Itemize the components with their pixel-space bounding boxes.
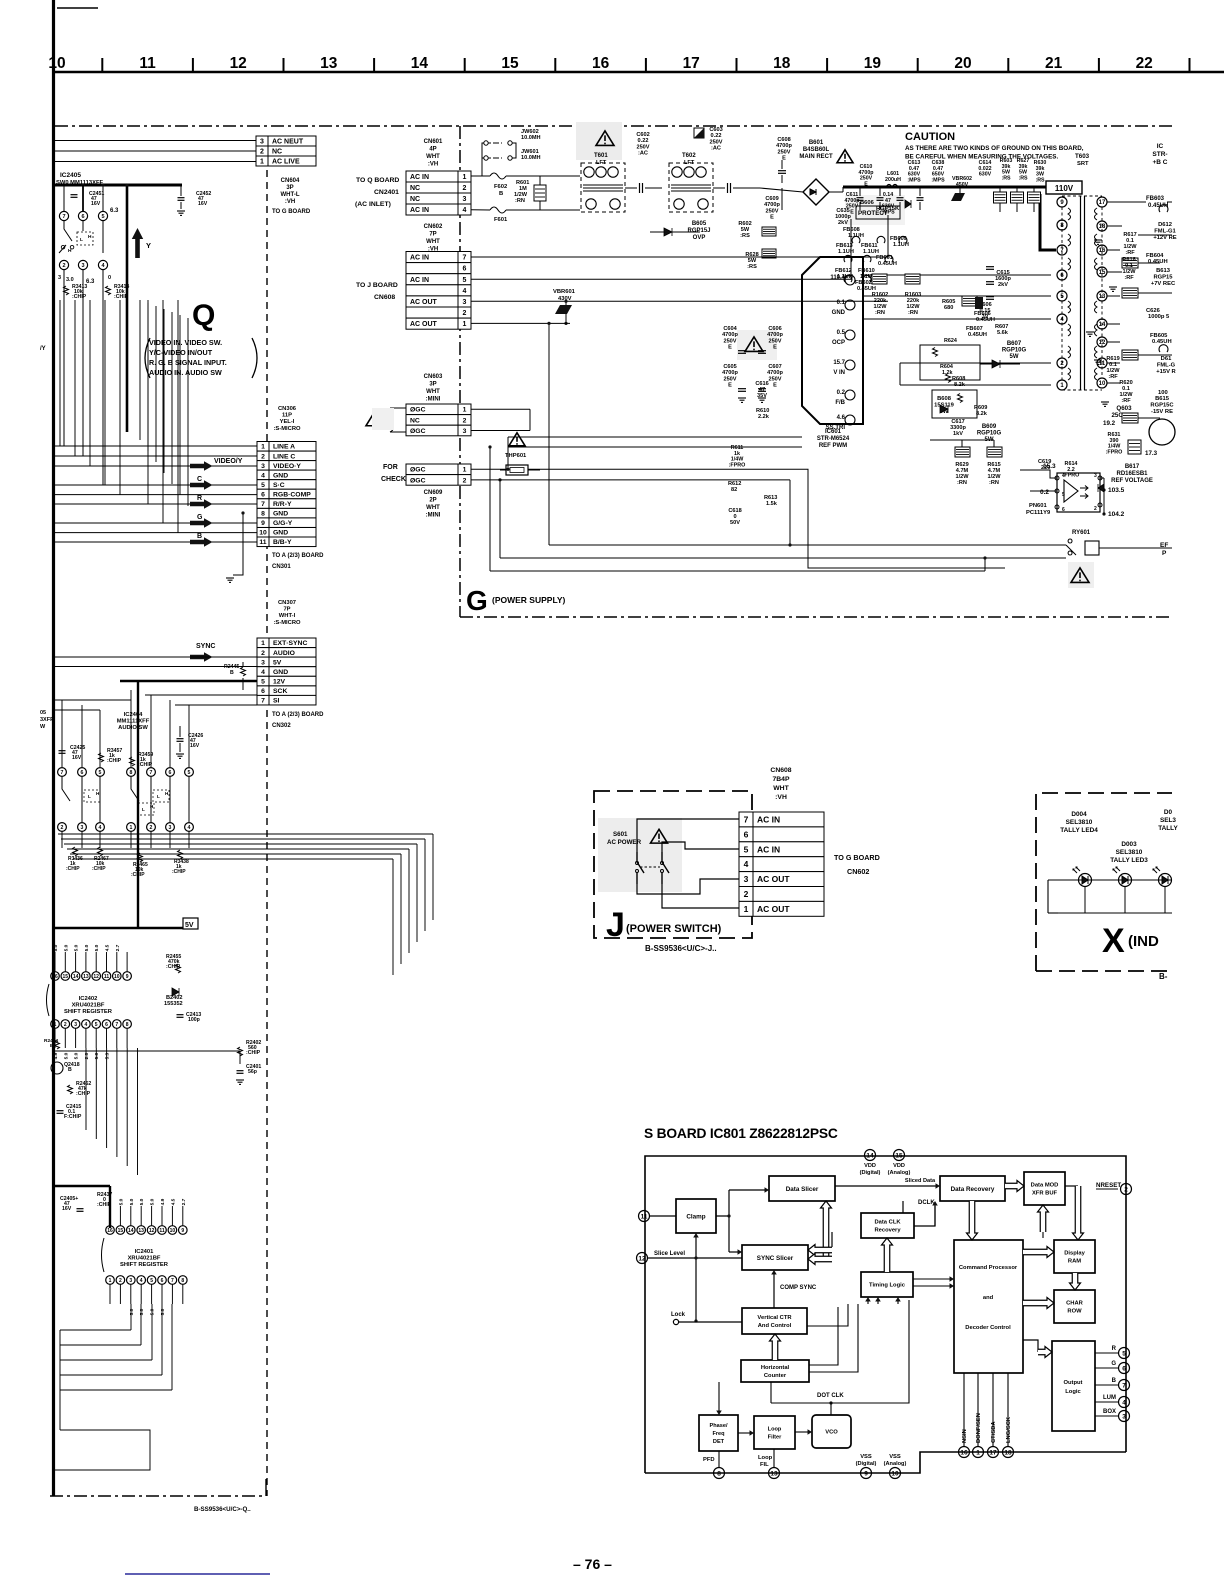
- svg-text:2: 2: [119, 1278, 122, 1284]
- svg-text:CN603: CN603: [424, 374, 443, 380]
- arrow SYNC: [190, 652, 213, 662]
- svg-text::CHIP: :CHIP: [107, 758, 122, 764]
- S board bottom wire left: [645, 1472, 895, 1474]
- svg-text:PN601: PN601: [1029, 503, 1048, 509]
- svg-text:SS.TRI: SS.TRI: [826, 425, 846, 431]
- svg-text:1kV: 1kV: [953, 431, 963, 437]
- svg-text:18: 18: [773, 55, 791, 72]
- svg-text:WHT-L: WHT-L: [281, 192, 300, 198]
- svg-text:10.0MH: 10.0MH: [521, 155, 541, 161]
- svg-text:B/B-Y: B/B-Y: [273, 539, 292, 546]
- svg-text::S-MICRO: :S-MICRO: [273, 620, 301, 626]
- svg-text:Q2418: Q2418: [64, 1062, 80, 1068]
- svg-text:C607: C607: [768, 364, 781, 370]
- svg-text:AC NEUT: AC NEUT: [272, 139, 304, 146]
- svg-text:E: E: [770, 215, 774, 221]
- arrow G: [190, 518, 213, 528]
- warning triangle in J box: [651, 829, 668, 843]
- vertical ctr to horizontal counter arrow: [770, 1334, 781, 1360]
- svg-text:0.22: 0.22: [638, 138, 649, 144]
- wires THP601 check loop: [471, 468, 506, 470]
- svg-text:AC POWER: AC POWER: [607, 839, 642, 846]
- svg-text:E: E: [773, 383, 777, 389]
- svg-text:BOX: BOX: [1103, 1409, 1116, 1415]
- svg-text:COMP SYNC: COMP SYNC: [780, 1285, 817, 1291]
- svg-text:6: 6: [161, 1278, 164, 1284]
- wires AC inlet to filters: [471, 175, 490, 177]
- data recovery box: [940, 1176, 1005, 1201]
- svg-text:F602: F602: [494, 184, 507, 190]
- svg-text:05: 05: [40, 710, 46, 716]
- svg-text:(POWER SUPPLY): (POWER SUPPLY): [492, 595, 566, 605]
- svg-text:2: 2: [1124, 1186, 1128, 1193]
- svg-text:WHT: WHT: [773, 785, 789, 792]
- svg-text:7: 7: [744, 815, 749, 825]
- svg-text:RGP15J: RGP15J: [687, 228, 710, 234]
- svg-text:250V: 250V: [723, 338, 736, 344]
- svg-text:10: 10: [1099, 381, 1106, 387]
- R602 R628 resistor boxes: [762, 227, 776, 236]
- svg-text:GND: GND: [273, 669, 288, 676]
- svg-text:3: 3: [129, 1278, 132, 1284]
- svg-text:REF VOLTAGE: REF VOLTAGE: [1111, 478, 1153, 484]
- wire NC: [55, 150, 256, 152]
- hollow arrows into sync slicer right: [808, 1245, 832, 1256]
- varistor VBR602: [951, 193, 965, 201]
- vertical thick signal wire: [126, 185, 129, 432]
- scan smudge patches: [576, 122, 622, 160]
- svg-text:11: 11: [104, 974, 110, 980]
- thick 12V vertical wire: [137, 681, 139, 928]
- inductor coil near CN603: [390, 408, 393, 432]
- svg-text:3: 3: [261, 659, 265, 666]
- wires to opto: [1020, 470, 1057, 478]
- svg-text:B: B: [50, 1043, 54, 1049]
- svg-text:TALLY LED3: TALLY LED3: [1110, 857, 1148, 864]
- routing verticals left lower: [59, 1330, 61, 1430]
- svg-text:SEL3810: SEL3810: [1116, 849, 1143, 856]
- svg-text:4.9: 4.9: [53, 1052, 59, 1059]
- svg-text:0.2: 0.2: [837, 390, 846, 396]
- svg-text:R/R-Y: R/R-Y: [273, 501, 292, 508]
- svg-text:F:CHIP: F:CHIP: [64, 1114, 82, 1120]
- svg-text:And Control: And Control: [758, 1323, 792, 1329]
- connector table CN306: [257, 442, 316, 452]
- resistor R3459: [130, 757, 135, 766]
- svg-text:5.0: 5.0: [118, 1198, 124, 1205]
- svg-text:2.2k: 2.2k: [758, 414, 770, 420]
- svg-text:6.3: 6.3: [86, 279, 95, 285]
- svg-text:G/G-Y: G/G-Y: [273, 520, 293, 527]
- timing logic box: [861, 1272, 913, 1297]
- svg-text:1: 1: [260, 159, 264, 166]
- svg-text:16V: 16V: [198, 201, 208, 207]
- thick supply bus top: [55, 184, 182, 187]
- svg-text:DET: DET: [713, 1439, 725, 1445]
- svg-text:0.45UH: 0.45UH: [1152, 339, 1172, 345]
- svg-text:17: 17: [683, 55, 700, 72]
- B606 diode symbol: [905, 200, 911, 208]
- svg-text::RS: :RS: [747, 264, 757, 270]
- capacitor C2426: [177, 738, 184, 740]
- sliced data wire: [835, 1185, 936, 1187]
- data clk to data recovery wire: [914, 1206, 935, 1226]
- svg-text:0: 0: [108, 275, 111, 281]
- svg-text:1: 1: [976, 1449, 980, 1456]
- R629 R615 ground stubs: [961, 440, 963, 447]
- svg-text:22: 22: [1136, 55, 1153, 72]
- svg-text:4: 4: [99, 825, 102, 831]
- svg-text:4.5: 4.5: [105, 944, 111, 951]
- svg-text:0.2: 0.2: [1040, 489, 1049, 496]
- switch wiring to CN608: [637, 819, 739, 852]
- data clk recovery box: [861, 1213, 914, 1238]
- svg-text:D612: D612: [1158, 222, 1172, 228]
- svg-text:200uH: 200uH: [885, 177, 901, 183]
- CN603 wires to right: [471, 408, 530, 410]
- svg-text:S601: S601: [613, 831, 628, 838]
- svg-text::FPRO: :FPRO: [1106, 449, 1123, 455]
- svg-text:17.3: 17.3: [1145, 450, 1158, 457]
- svg-text:5: 5: [261, 482, 265, 489]
- svg-text:11: 11: [259, 539, 266, 546]
- svg-text:Display: Display: [1064, 1251, 1085, 1257]
- svg-text:Counter: Counter: [764, 1373, 787, 1379]
- svg-text:C605: C605: [723, 364, 736, 370]
- svg-text:CN608: CN608: [770, 767, 791, 774]
- bridge rectifier B601: [803, 179, 829, 205]
- svg-text:PC111Y9: PC111Y9: [1026, 510, 1051, 516]
- svg-text:5.0: 5.0: [139, 1308, 145, 1315]
- svg-text:250V: 250V: [723, 376, 736, 382]
- transformer T603 primary pins: [1057, 197, 1067, 207]
- svg-text:5.0: 5.0: [84, 944, 90, 951]
- svg-text:E: E: [782, 156, 786, 162]
- clamp box: [676, 1199, 716, 1233]
- svg-text:7: 7: [261, 501, 265, 508]
- relay rail bottom: [500, 557, 1066, 559]
- svg-text:VDD: VDD: [864, 1163, 876, 1169]
- svg-text:3: 3: [1122, 1413, 1126, 1420]
- svg-text:CHECK: CHECK: [381, 476, 406, 483]
- svg-text:– 76 –: – 76 –: [573, 1556, 612, 1572]
- svg-text:5.0: 5.0: [63, 1052, 69, 1059]
- svg-text:RY601: RY601: [1072, 530, 1091, 536]
- svg-text:RD16ESB1: RD16ESB1: [1116, 471, 1148, 477]
- svg-text:4700p: 4700p: [767, 370, 783, 376]
- svg-text:EF: EF: [1160, 542, 1168, 549]
- data mod xfr buf box: [1024, 1172, 1065, 1205]
- page border top-left stub: [57, 7, 98, 9]
- svg-text:0.45UH: 0.45UH: [1148, 203, 1168, 209]
- svg-text:NC: NC: [410, 196, 420, 203]
- data recovery down arrows to command processor: [967, 1201, 978, 1240]
- thick wire to IC2401: [55, 1185, 110, 1187]
- connector table CN608 G side: [406, 252, 471, 263]
- svg-text:VIDEO/Y: VIDEO/Y: [214, 458, 243, 465]
- svg-text:Loop: Loop: [758, 1455, 773, 1461]
- C2405 cap: [77, 1208, 84, 1210]
- hollow arrow into data slicer: [821, 1201, 832, 1256]
- svg-text:FB603: FB603: [1146, 196, 1165, 202]
- svg-text:6: 6: [1122, 1365, 1126, 1372]
- svg-text:+7V REC: +7V REC: [1151, 281, 1176, 287]
- svg-text:VIDEO·Y: VIDEO·Y: [273, 463, 301, 470]
- loop filter box: [754, 1416, 795, 1449]
- svg-text:17: 17: [1099, 200, 1106, 206]
- main 110V bus: [843, 186, 1046, 189]
- svg-text:-15V RE: -15V RE: [1151, 409, 1173, 415]
- svg-text:WHT: WHT: [426, 154, 440, 160]
- B605 diode: [664, 228, 672, 236]
- svg-text:2: 2: [62, 263, 65, 269]
- ground symbols right column: [1094, 239, 1102, 241]
- svg-text:AUDIO SW: AUDIO SW: [118, 725, 148, 731]
- snubber caps: [986, 266, 994, 268]
- C608 cap symbol: [778, 170, 786, 172]
- svg-text:15.3: 15.3: [1043, 463, 1056, 470]
- svg-text:L: L: [88, 794, 91, 799]
- svg-text:15: 15: [63, 974, 69, 980]
- svg-text:B-: B-: [1159, 972, 1168, 981]
- svg-text:SEL3: SEL3: [1160, 817, 1176, 824]
- svg-text:E: E: [773, 345, 777, 351]
- svg-text::MINI: :MINI: [426, 397, 441, 403]
- svg-text:4700p: 4700p: [764, 202, 780, 208]
- svg-text:680: 680: [944, 305, 953, 311]
- svg-text:5.3: 5.3: [105, 1052, 111, 1059]
- footer blue line: [125, 1573, 270, 1575]
- svg-text:12V: 12V: [273, 679, 286, 686]
- svg-text:250V: 250V: [636, 144, 649, 150]
- svg-text:16: 16: [960, 1449, 968, 1456]
- C2401 label: [237, 1070, 244, 1072]
- svg-text:SRT: SRT: [1077, 161, 1089, 167]
- svg-text:RGB·COMP: RGB·COMP: [273, 491, 311, 498]
- svg-text:Timing Logic: Timing Logic: [869, 1283, 906, 1289]
- svg-text:250V: 250V: [777, 149, 790, 155]
- data recovery to data mod arrow: [1005, 1181, 1024, 1192]
- svg-text:13: 13: [138, 1228, 144, 1234]
- svg-text::CHIP: :CHIP: [172, 869, 186, 875]
- svg-text:4: 4: [744, 859, 749, 869]
- svg-text:250V: 250V: [768, 338, 781, 344]
- svg-text::RN: :RN: [957, 480, 967, 486]
- svg-text:B: B: [197, 533, 202, 540]
- svg-text:2: 2: [744, 889, 749, 899]
- svg-text:C609: C609: [765, 196, 778, 202]
- svg-text:8: 8: [181, 1278, 184, 1284]
- svg-text:NSIN: NSIN: [962, 1429, 968, 1443]
- cp to char row arrow: [1023, 1298, 1054, 1309]
- data slicer box: [769, 1176, 835, 1201]
- svg-text:7: 7: [62, 214, 65, 220]
- J board dashed border: [594, 791, 752, 938]
- 5V boxed label: [183, 918, 198, 929]
- svg-text::CHIP: :CHIP: [92, 866, 106, 872]
- svg-text:4: 4: [463, 288, 467, 295]
- svg-text:XFR BUF: XFR BUF: [1032, 1191, 1058, 1197]
- svg-text:16V: 16V: [190, 743, 200, 749]
- svg-text:VDD: VDD: [893, 1163, 905, 1169]
- svg-text::VH: :VH: [285, 199, 295, 205]
- tally LED D003: [1119, 874, 1132, 887]
- svg-text:RGP15C: RGP15C: [1150, 402, 1174, 408]
- svg-text:Loop: Loop: [768, 1427, 782, 1433]
- svg-text:2: 2: [61, 825, 64, 831]
- inductor L601 on bus: [886, 185, 898, 188]
- svg-text:CN609: CN609: [424, 490, 443, 496]
- Q board description paren right: [252, 338, 257, 378]
- svg-text:L: L: [157, 794, 160, 799]
- svg-text:B606: B606: [860, 200, 875, 206]
- svg-text:and: and: [983, 1295, 994, 1301]
- connector table CN609 for check: [406, 464, 471, 475]
- fuse F602: [490, 173, 506, 179]
- svg-text:2: 2: [463, 310, 467, 317]
- svg-text:GND: GND: [273, 530, 288, 537]
- svg-text:2: 2: [463, 477, 467, 484]
- svg-text:(IND: (IND: [1128, 933, 1159, 950]
- svg-text:1: 1: [463, 321, 467, 328]
- svg-text:7: 7: [261, 698, 265, 705]
- svg-text:4.5: 4.5: [170, 1198, 176, 1205]
- svg-text:CN307: CN307: [278, 600, 296, 606]
- svg-text:H: H: [88, 234, 92, 240]
- svg-text:56p: 56p: [248, 1069, 257, 1075]
- svg-text:14: 14: [411, 55, 429, 72]
- transformer T603 core: [1080, 196, 1082, 390]
- svg-text:1.5k: 1.5k: [766, 501, 778, 507]
- svg-text:(Digital): (Digital): [856, 1461, 877, 1467]
- transformer T603 dashed outline: [1062, 196, 1102, 390]
- svg-text:(Analog): (Analog): [888, 1170, 911, 1176]
- warning triangle B601: [837, 150, 853, 163]
- vco box: [812, 1415, 851, 1448]
- IC2401 pin stubs: [109, 1206, 111, 1226]
- svg-text:FIL: FIL: [760, 1462, 769, 1468]
- svg-text:3: 3: [81, 825, 84, 831]
- routing wires IC2401 down: [130, 1304, 132, 1330]
- svg-text:/Y: /Y: [40, 346, 46, 352]
- svg-text::RN: :RN: [989, 480, 999, 486]
- svg-text:T602: T602: [682, 153, 696, 159]
- svg-text:E: E: [728, 345, 732, 351]
- svg-text:12: 12: [638, 1255, 646, 1262]
- svg-text:GND: GND: [273, 472, 288, 479]
- svg-text:E: E: [728, 383, 732, 389]
- svg-text:4P: 4P: [429, 147, 436, 153]
- svg-text:2P: 2P: [429, 498, 436, 504]
- svg-text:ØGC: ØGC: [410, 477, 426, 484]
- svg-text:9: 9: [181, 1228, 184, 1234]
- wires into CN307: [55, 656, 257, 658]
- svg-text:5.0: 5.0: [129, 1198, 135, 1205]
- svg-text:4: 4: [188, 825, 191, 831]
- svg-text:1: 1: [744, 904, 749, 914]
- svg-text:12: 12: [230, 55, 247, 72]
- svg-text:6: 6: [261, 491, 265, 498]
- svg-text:2.7: 2.7: [181, 1198, 187, 1205]
- data mod to display ram path: [1065, 1185, 1078, 1187]
- switch contacts IC2405: [64, 221, 72, 241]
- IC2405 switch pins 7 6 5: [59, 211, 68, 220]
- svg-text:Data Slicer: Data Slicer: [786, 1186, 819, 1193]
- svg-text:1: 1: [463, 174, 467, 181]
- opto right diode: [1098, 484, 1104, 492]
- svg-text:B608: B608: [937, 396, 952, 402]
- svg-text:L: L: [142, 807, 145, 812]
- IC2404 switch B pins bottom: [127, 823, 136, 832]
- bridge input wires: [760, 188, 803, 192]
- svg-text:9: 9: [864, 1470, 868, 1477]
- svg-text:4: 4: [1122, 1399, 1126, 1406]
- Q board right dash-dot border: [266, 170, 268, 1496]
- svg-text:DONF/SEN: DONF/SEN: [976, 1413, 982, 1443]
- svg-text:CN306: CN306: [278, 406, 297, 412]
- pin 14: [865, 1150, 876, 1161]
- output logic box: [1052, 1341, 1095, 1431]
- svg-text:B605: B605: [692, 221, 707, 227]
- pin9 wire from bus: [1040, 249, 1051, 251]
- svg-text:7: 7: [1122, 1382, 1126, 1389]
- svg-text:5.0: 5.0: [94, 944, 100, 951]
- S board outer boundary: [645, 1156, 1126, 1473]
- resistor R2467: [98, 847, 103, 856]
- wire CN608 row1 AC OUT: [471, 322, 570, 324]
- svg-text:250V: 250V: [709, 139, 722, 145]
- svg-text:SCK: SCK: [273, 688, 287, 695]
- svg-text:B-SS9536<U/C>-Q..: B-SS9536<U/C>-Q..: [194, 1506, 251, 1513]
- svg-text:8: 8: [261, 511, 265, 518]
- vertical ctr box: [742, 1308, 807, 1334]
- svg-text:16V: 16V: [72, 755, 82, 761]
- IC2401 left bracket: [102, 1238, 105, 1272]
- svg-text::RN: :RN: [515, 198, 525, 204]
- clamp feedback vertical: [695, 1238, 697, 1322]
- svg-text:5: 5: [744, 844, 749, 854]
- svg-text:B: B: [1112, 1378, 1117, 1384]
- svg-text:B609: B609: [982, 424, 997, 430]
- svg-text:3: 3: [260, 139, 264, 146]
- svg-text:RGP15K: RGP15K: [876, 206, 900, 212]
- svg-text:TO G BOARD: TO G BOARD: [272, 209, 311, 215]
- svg-text:OCP: OCP: [832, 340, 845, 346]
- svg-text:0.45UH: 0.45UH: [878, 261, 897, 267]
- svg-text:0.45UH: 0.45UH: [968, 332, 987, 338]
- inductor half loops: [852, 236, 860, 243]
- svg-text:CN601: CN601: [424, 139, 443, 145]
- svg-text:G: G: [1111, 1361, 1116, 1367]
- svg-text:AS THERE ARE TWO KINDS OF GROU: AS THERE ARE TWO KINDS OF GROUND ON THIS…: [905, 145, 1084, 152]
- B2402 label: [172, 988, 179, 996]
- display ram to char row arrow: [1070, 1273, 1081, 1290]
- svg-text::CHIP: :CHIP: [166, 964, 181, 970]
- svg-text::CHIP: :CHIP: [246, 1050, 261, 1056]
- svg-text:3P: 3P: [429, 382, 436, 388]
- svg-text:4: 4: [463, 207, 467, 214]
- R2444 label: [55, 1040, 60, 1049]
- tally LED wire top: [1048, 879, 1172, 881]
- svg-text:13: 13: [770, 1470, 778, 1477]
- svg-text:C604: C604: [723, 326, 737, 332]
- svg-text:5.0: 5.0: [150, 1198, 156, 1205]
- svg-text:5.6k: 5.6k: [997, 330, 1009, 336]
- svg-text:W: W: [40, 724, 46, 730]
- svg-text:Vertical CTR: Vertical CTR: [757, 1315, 792, 1321]
- svg-text:Sliced Data: Sliced Data: [905, 1178, 936, 1184]
- svg-text::MPS: :MPS: [931, 177, 945, 183]
